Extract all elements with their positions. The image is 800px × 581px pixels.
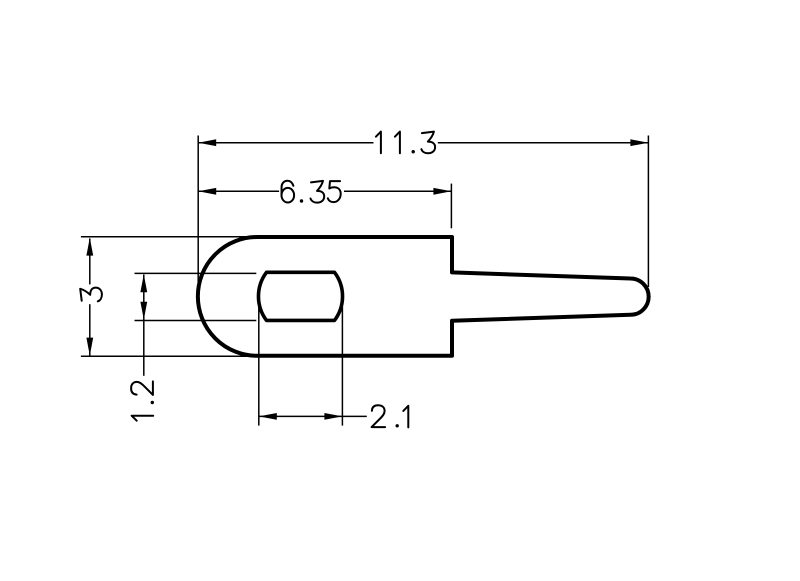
- dimension 1.2 arrow up: [140, 274, 147, 292]
- dimension 1.2 arrow down: [140, 302, 147, 320]
- dimension 1.2 extension line top: [135, 272, 257, 274]
- dimension 6.35 text: [282, 181, 341, 203]
- dimension 11.3 line: [198, 142, 648, 144]
- dimension 6.35 arrow left: [198, 188, 216, 195]
- dimension 11.3 arrow left: [198, 139, 216, 146]
- dimension 2.1 arrow left: [259, 413, 277, 420]
- dimension 6.35 line: [198, 190, 451, 192]
- part outline: [198, 237, 649, 356]
- dimension 2.1 extension line left: [258, 307, 260, 426]
- dimension 3 arrow down: [86, 338, 93, 356]
- slot: [258, 272, 342, 320]
- dimension 11.3 extension line left: [197, 136, 199, 284]
- dimension 6.35 extension line right: [450, 184, 452, 229]
- dimension 6.35 arrow right: [433, 188, 451, 195]
- dimension 3 line: [89, 239, 91, 356]
- dimension 2.1 extension line right: [341, 307, 343, 426]
- dimension 2.1 line: [259, 415, 367, 417]
- dimension 11.3 text: [376, 132, 435, 154]
- dimension 3 extension line top: [81, 236, 256, 238]
- dimension 2.1 text: [372, 405, 409, 427]
- dimension 11.3 arrow right: [630, 139, 648, 146]
- dimension 3 arrow up: [86, 238, 93, 256]
- dimension 2.1 arrow right: [324, 413, 342, 420]
- dimension 1.2 text (rotated): [131, 381, 154, 420]
- dimension 1.2 extension line bottom: [135, 320, 257, 322]
- dimension 1.2 line: [143, 275, 145, 376]
- dimension 11.3 extension line right: [647, 136, 649, 288]
- dimension 3 extension line bottom: [81, 355, 256, 357]
- dimension 3 text (rotated): [80, 288, 102, 302]
